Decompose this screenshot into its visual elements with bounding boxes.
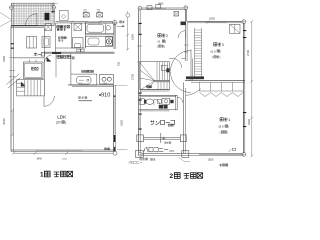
- svg-text:1820: 1820: [247, 119, 251, 125]
- svg-text:(20: (20: [56, 121, 61, 125]
- svg-text:2: 2: [170, 173, 174, 180]
- svg-text:): ): [165, 40, 166, 44]
- svg-text:1820: 1820: [2, 56, 6, 62]
- svg-text:(6.0: (6.0: [211, 49, 217, 53]
- svg-text:): ): [164, 44, 165, 48]
- svg-text:(6: (6: [158, 40, 161, 44]
- svg-text:(: (: [157, 44, 158, 48]
- svg-text:(8.5: (8.5: [219, 125, 225, 129]
- svg-text:): ): [228, 125, 229, 129]
- svg-text:1805: 1805: [97, 12, 101, 14]
- svg-text:1805: 1805: [83, 12, 87, 14]
- svg-text:910: 910: [117, 61, 120, 66]
- svg-text:1: 1: [40, 172, 44, 179]
- svg-text:4550: 4550: [62, 159, 68, 161]
- svg-text:8190: 8190: [2, 118, 6, 124]
- svg-text:1820: 1820: [131, 34, 135, 40]
- svg-text:3: 3: [222, 43, 224, 47]
- svg-text:1820: 1820: [120, 120, 124, 126]
- svg-text:): ): [227, 130, 228, 134]
- svg-text:1: 1: [228, 118, 230, 122]
- svg-text:1820: 1820: [208, 157, 214, 161]
- svg-text:3640: 3640: [37, 157, 43, 160]
- svg-text:): ): [220, 55, 221, 59]
- svg-text:2730: 2730: [246, 50, 250, 56]
- svg-text:(: (: [212, 55, 213, 59]
- svg-text:FIX: FIX: [170, 149, 175, 153]
- svg-text:LDK: LDK: [57, 115, 67, 120]
- svg-text:): ): [220, 49, 221, 53]
- svg-text:2: 2: [166, 34, 168, 38]
- svg-text:(: (: [220, 130, 221, 134]
- svg-text:910: 910: [101, 92, 110, 98]
- svg-text:): ): [65, 121, 66, 125]
- svg-text:2730: 2730: [131, 74, 135, 80]
- svg-text:1820: 1820: [209, 16, 215, 20]
